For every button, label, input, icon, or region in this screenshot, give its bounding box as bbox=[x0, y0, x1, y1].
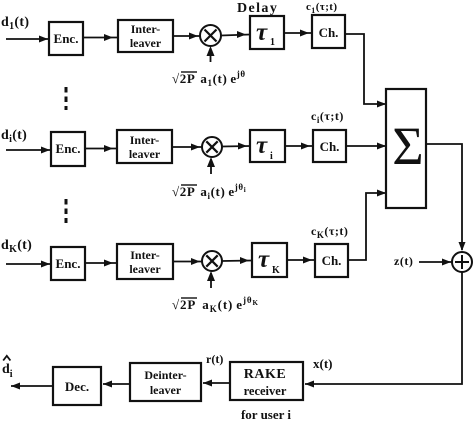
wire tau1 to Ch1 bbox=[284, 30, 312, 37]
block Interleaver user K bbox=[117, 244, 173, 279]
svg-text:Ch.: Ch. bbox=[320, 139, 340, 154]
svg-text:τ: τ bbox=[258, 246, 270, 273]
svg-text:leaver: leaver bbox=[150, 383, 182, 397]
svg-text:Inter-: Inter- bbox=[131, 22, 161, 36]
wire Deinterleaver to Dec bbox=[103, 381, 130, 388]
block Enc. user i bbox=[51, 132, 85, 166]
svg-text:c1(τ;t): c1(τ;t) bbox=[306, 1, 337, 15]
block RAKE receiver bbox=[230, 362, 303, 400]
wire spreading input up into M1 bbox=[207, 46, 215, 62]
wire Interleaver2 to multiplier2 bbox=[172, 144, 202, 151]
wire Enc1 to Interleaver1 bbox=[83, 34, 118, 41]
svg-text:RAKE: RAKE bbox=[244, 367, 286, 382]
svg-text:K: K bbox=[272, 265, 280, 276]
svg-text:Dec.: Dec. bbox=[65, 379, 89, 394]
multiplier M1 bbox=[200, 25, 221, 46]
svg-text:ci(τ;t): ci(τ;t) bbox=[311, 109, 344, 125]
wire input user1 bbox=[6, 36, 48, 43]
label d-hat i bbox=[2, 356, 13, 380]
wire input user K bbox=[6, 261, 50, 268]
wire tau2 to Ch2 bbox=[285, 143, 313, 150]
label r(t) bbox=[206, 352, 223, 366]
svg-text:for user i: for user i bbox=[241, 407, 291, 422]
block Ch2 channel bbox=[313, 130, 346, 162]
wire multiplier3 to tau3 bbox=[222, 257, 252, 264]
wire spreading input up into M3 bbox=[207, 271, 215, 288]
wire Ch3 to Sigma bbox=[348, 190, 386, 261]
wire Interleaver3 to multiplier3 bbox=[173, 258, 202, 265]
block Ch1 channel bbox=[312, 15, 345, 48]
block tau i delay bbox=[250, 130, 285, 162]
wire Sigma to adder bbox=[426, 144, 466, 251]
wire Dec output bbox=[11, 383, 53, 390]
multiplier M2 bbox=[202, 137, 222, 157]
svg-text:cK(τ;t): cK(τ;t) bbox=[311, 224, 348, 240]
block Interleaver user i bbox=[117, 130, 172, 163]
svg-text:leaver: leaver bbox=[130, 36, 162, 50]
wire RAKE to Deinterleaver bbox=[203, 380, 230, 387]
label cK(tau;t) bbox=[311, 224, 348, 240]
svg-text:Deinter-: Deinter- bbox=[144, 368, 186, 382]
wire Interleaver1 to multiplier1 bbox=[173, 33, 200, 40]
label dK(t) bbox=[1, 238, 32, 255]
block Interleaver user1 bbox=[118, 20, 173, 52]
wire multiplier2 to tau2 bbox=[222, 143, 250, 150]
wire Ch2 to Sigma bbox=[346, 143, 386, 150]
svg-text:i: i bbox=[270, 151, 273, 162]
block tau1 delay bbox=[250, 16, 284, 49]
block Deinterleaver bbox=[130, 363, 201, 401]
svg-text:r(t): r(t) bbox=[206, 352, 223, 366]
svg-text:d1(t): d1(t) bbox=[1, 15, 29, 32]
svg-text:τ: τ bbox=[256, 19, 268, 46]
block Enc. user1 bbox=[49, 22, 83, 55]
block tau K delay bbox=[252, 243, 287, 277]
svg-text:x(t): x(t) bbox=[313, 356, 333, 371]
block Enc. user K bbox=[51, 247, 85, 280]
svg-text:τ: τ bbox=[256, 132, 268, 159]
wire Enc3 to Interleaver3 bbox=[85, 260, 117, 267]
svg-text:Delay: Delay bbox=[237, 1, 278, 16]
wire spreading input up into M2 bbox=[207, 157, 215, 174]
svg-text:Enc.: Enc. bbox=[54, 31, 79, 46]
label di(t) bbox=[1, 128, 27, 145]
svg-text:Ch.: Ch. bbox=[322, 253, 342, 268]
adder node bbox=[452, 252, 472, 272]
label for user i bbox=[241, 407, 291, 422]
label ci(tau;t) bbox=[311, 109, 344, 125]
block Sigma summation bbox=[386, 89, 426, 208]
svg-text:dK(t): dK(t) bbox=[1, 238, 32, 255]
label Delay bbox=[237, 1, 278, 16]
wire Enc2 to Interleaver2 bbox=[85, 145, 117, 152]
block Dec decoder bbox=[53, 367, 101, 405]
wire Ch1 to Sigma bbox=[345, 34, 386, 108]
ellipsis dots rows2-3 bbox=[65, 199, 68, 223]
svg-text:di(t): di(t) bbox=[1, 128, 27, 145]
svg-text:Inter-: Inter- bbox=[130, 133, 160, 147]
wire adder down to receiver bbox=[305, 272, 462, 388]
svg-text:leaver: leaver bbox=[129, 262, 161, 276]
label c1(tau;t) bbox=[306, 1, 337, 15]
svg-text:leaver: leaver bbox=[129, 147, 161, 161]
svg-text:1: 1 bbox=[270, 37, 275, 48]
svg-text:Inter-: Inter- bbox=[130, 248, 160, 262]
multiplier M3 bbox=[202, 251, 222, 271]
svg-text:z(t): z(t) bbox=[394, 254, 413, 268]
wire multiplier1 to tau1 bbox=[221, 31, 250, 38]
wire input user i bbox=[6, 147, 50, 154]
svg-text:Enc.: Enc. bbox=[56, 141, 81, 156]
label d1(t) bbox=[1, 15, 29, 32]
svg-text:receiver: receiver bbox=[244, 384, 287, 398]
label x(t) bbox=[313, 356, 333, 371]
wire z(t) into adder bbox=[419, 259, 452, 266]
label sqrt(2P) a1(t) e^jtheta bbox=[172, 69, 246, 88]
svg-text:Enc.: Enc. bbox=[56, 256, 81, 271]
svg-text:Ch.: Ch. bbox=[319, 25, 339, 40]
ellipsis dots rows1-2 bbox=[65, 87, 68, 110]
svg-text:Σ: Σ bbox=[392, 116, 423, 176]
block Ch3 channel bbox=[315, 244, 348, 277]
wire tau3 to Ch3 bbox=[287, 257, 315, 264]
label sqrt(2P) ai(t) e^jtheta_i bbox=[172, 182, 246, 201]
label sqrt(2P) aK(t) e^jtheta_K bbox=[172, 295, 259, 314]
label z(t) bbox=[394, 254, 413, 268]
